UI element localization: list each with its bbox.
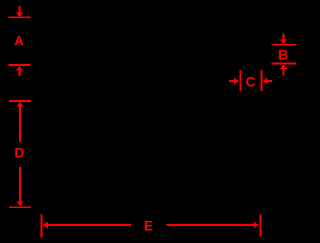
dimension D bottom arrow (pointing down) — [17, 167, 24, 206]
dimension D top extension line — [9, 100, 31, 102]
dimension D top arrow (pointing up) — [17, 102, 24, 142]
dimension A bottom extension line — [8, 64, 30, 66]
dimension C left extension line — [239, 70, 241, 91]
dimension C left arrow (pointing right) — [229, 78, 239, 85]
svg-text:E: E — [144, 218, 153, 234]
svg-text:D: D — [14, 146, 24, 161]
dimension D bottom extension line — [9, 206, 31, 208]
dimension E line left segment — [47, 224, 131, 226]
dimension A bottom arrow (pointing up) — [16, 66, 23, 76]
dimension A top arrow (pointing down) — [16, 6, 23, 17]
svg-text:C: C — [246, 74, 256, 90]
dimension C right arrow (pointing left) — [263, 78, 272, 85]
dimension B bottom extension line — [272, 63, 297, 65]
dimension B top extension line — [272, 44, 297, 46]
dimension E right extension line — [260, 214, 262, 236]
dimension C right extension line — [261, 70, 263, 91]
dimension B top arrow (pointing down) — [280, 34, 287, 45]
svg-text:B: B — [278, 47, 288, 63]
dimension B bottom arrow (pointing up) — [280, 65, 287, 76]
dimension E left arrow (pointing left) — [43, 222, 48, 229]
dimension E line right segment — [167, 224, 255, 226]
dimension E left extension line — [41, 215, 43, 238]
dimension E right arrow (pointing right) — [254, 222, 259, 229]
svg-text:A: A — [14, 33, 24, 48]
dimension A top extension line — [8, 16, 30, 18]
